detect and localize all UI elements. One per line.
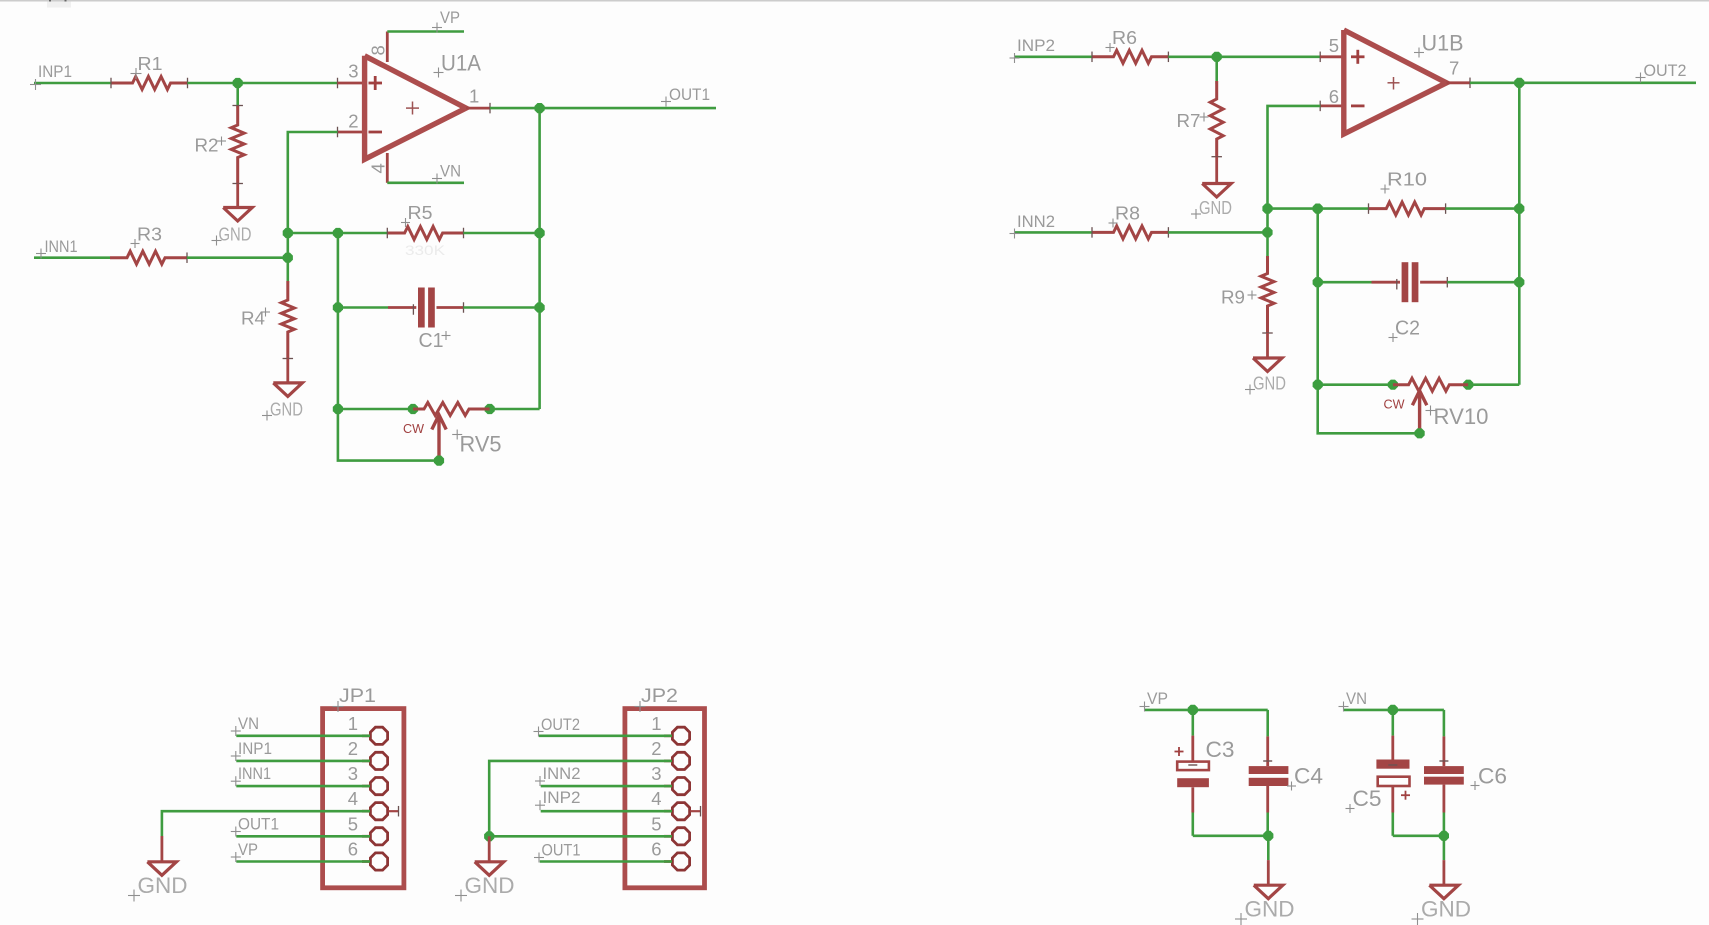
svg-text:R6: R6	[1112, 27, 1137, 48]
junction C1 right	[535, 302, 545, 312]
junction RV10 wiper	[1415, 428, 1425, 438]
svg-text:6: 6	[348, 839, 358, 860]
svg-text:330K: 330K	[405, 243, 445, 258]
JP1 pad 4	[362, 810, 370, 813]
svg-text:7: 7	[1449, 58, 1459, 79]
junction C1 left	[333, 302, 343, 312]
pin U1A.1	[466, 107, 490, 110]
pin tick R3.2	[186, 252, 188, 263]
junction node D	[1262, 227, 1272, 237]
resistor R10	[1369, 202, 1446, 215]
svg-text:2: 2	[348, 738, 358, 759]
net VN wire (caps)	[1344, 709, 1444, 712]
JP1 pad 6	[362, 860, 370, 863]
pin tick R6.2	[1167, 52, 1169, 63]
pin tick R10.2	[1445, 203, 1447, 214]
capacitor C6 leads	[1443, 710, 1446, 737]
C3 polarity plus	[1175, 751, 1184, 753]
svg-text:VP: VP	[238, 840, 258, 859]
junction C4 bottom	[1263, 831, 1273, 841]
node INN2 label	[1010, 233, 1020, 235]
JP2 pad 4	[664, 810, 672, 813]
JP1 pad 2	[362, 760, 370, 763]
ground GND (JP1)	[147, 862, 176, 876]
net INP1 wire (JP1.2)	[236, 760, 370, 763]
U1A center plus	[406, 107, 419, 109]
U1A plus input mark	[369, 82, 383, 85]
svg-text:1: 1	[469, 86, 479, 107]
pin tick C1.2	[463, 302, 465, 313]
JP2 pin4 stub	[690, 810, 700, 812]
svg-text:3: 3	[348, 763, 358, 784]
svg-text:VN: VN	[1346, 689, 1367, 708]
pin tick U1A.2	[337, 127, 339, 138]
svg-text:GND: GND	[1421, 897, 1471, 922]
junction R5 right	[535, 228, 545, 238]
connector JP1 body	[323, 709, 404, 888]
net VN wire (JP1.1)	[236, 734, 370, 737]
pin tick R2.2	[232, 183, 243, 185]
svg-text:C6: C6	[1478, 764, 1507, 789]
wire RV5 row left	[338, 408, 413, 411]
node INP1 label (JP1)	[231, 755, 241, 757]
svg-text:OUT1: OUT1	[238, 815, 279, 834]
svg-text:VP: VP	[440, 8, 460, 27]
node VN label (caps)	[1339, 706, 1349, 708]
wire C4 to GND	[1267, 836, 1270, 860]
svg-text:INN1: INN1	[238, 764, 271, 783]
label R5	[401, 222, 410, 224]
U1B plus input mark	[1351, 55, 1365, 58]
svg-text:C3: C3	[1206, 737, 1235, 762]
svg-text:CW: CW	[403, 422, 424, 436]
ground GND (C6)	[1429, 885, 1458, 899]
net VP wire (caps)	[1145, 709, 1268, 712]
JP2 pad 6	[664, 860, 672, 863]
junction OUT2	[1514, 78, 1524, 88]
svg-text:JP2: JP2	[641, 686, 678, 707]
ground GND (C4)	[1254, 885, 1283, 899]
net OUT1 wire (JP2.6)	[540, 860, 672, 863]
svg-text:1: 1	[348, 713, 358, 734]
label C6	[1471, 785, 1480, 787]
U1B minus input mark	[1351, 105, 1365, 108]
svg-text:OUT1: OUT1	[669, 85, 710, 104]
resistor R3	[110, 251, 187, 264]
wire R10 to rail	[1446, 207, 1520, 210]
svg-text:GND: GND	[138, 873, 188, 898]
svg-text:GND: GND	[465, 873, 515, 898]
svg-text:INN2: INN2	[1017, 212, 1055, 231]
junction VN	[1388, 705, 1398, 715]
svg-text:INN1: INN1	[45, 237, 78, 256]
svg-text:R8: R8	[1115, 203, 1140, 224]
svg-text:VP: VP	[1147, 689, 1168, 708]
junction R10 left	[1262, 204, 1272, 214]
svg-text:GND: GND	[270, 399, 303, 420]
svg-text:U1A: U1A	[441, 51, 481, 76]
capacitor C3	[1177, 762, 1209, 771]
wire R9 to GND	[1266, 333, 1269, 359]
op-amp U1B triangle	[1344, 30, 1447, 134]
JP1 pad 5	[362, 835, 370, 838]
svg-text:6: 6	[1329, 86, 1339, 107]
pin tick R1.1	[110, 78, 112, 89]
RV5 wiper arrow	[437, 418, 440, 459]
net INN1 wire (JP1.3)	[236, 785, 370, 788]
svg-text:3: 3	[651, 763, 661, 784]
ground GND (JP2)	[475, 862, 504, 876]
node OUT2 label	[1636, 77, 1646, 79]
wire output rail	[538, 108, 541, 409]
net INP2 wire (JP2.4)	[541, 810, 672, 813]
junction C2 left	[1313, 277, 1323, 287]
ground GND (R4)	[273, 383, 302, 397]
net INN2 wire (JP2.3)	[541, 785, 672, 788]
net OUT2 wire	[1470, 82, 1696, 85]
wire C3 bottom	[1193, 834, 1269, 837]
svg-text:INP2: INP2	[543, 788, 581, 807]
pin tick U1A.3	[337, 78, 339, 89]
net INN1 wire	[34, 256, 110, 259]
wire node D down	[1266, 209, 1269, 258]
U1A minus input mark	[369, 131, 383, 134]
junction R10 mid	[1313, 204, 1323, 214]
wire RV10 wiper loop	[1318, 385, 1420, 434]
junction C2 right	[1514, 277, 1524, 287]
pin tick R5.1	[386, 228, 388, 239]
C5 polarity plus	[1401, 794, 1410, 796]
svg-text:U1B: U1B	[1422, 31, 1464, 56]
wire VP stub	[387, 30, 464, 33]
svg-text:GND: GND	[1245, 897, 1295, 922]
wire C1 row left	[338, 306, 388, 309]
label R6	[1106, 47, 1115, 49]
svg-text:CW: CW	[1384, 398, 1405, 412]
node OUT1 label (JP2)	[534, 857, 544, 859]
junction RV10 row left	[1313, 380, 1323, 390]
capacitor C2	[1372, 281, 1401, 284]
pin tick C2.1	[1396, 279, 1398, 290]
svg-text:GND: GND	[1253, 373, 1286, 394]
svg-text:R1: R1	[138, 53, 163, 74]
svg-text:5: 5	[651, 813, 661, 834]
pin tick R1.2	[187, 78, 189, 89]
svg-text:1: 1	[651, 713, 661, 734]
wire RV5 right	[490, 408, 540, 411]
svg-text:2: 2	[348, 111, 358, 132]
JP1 pad 1	[362, 734, 370, 737]
junction RV10.3	[1463, 380, 1473, 390]
svg-text:RV5: RV5	[460, 432, 502, 457]
label U1A	[434, 72, 444, 74]
pin tick C6.1	[1439, 760, 1448, 762]
svg-text:R10: R10	[1387, 169, 1427, 190]
junction JP2 GND	[484, 831, 494, 841]
resistor R4	[281, 281, 294, 359]
wire JP2 GND stem	[488, 836, 491, 862]
net GND wire (JP1.4)	[162, 811, 370, 836]
net OUT1 wire (JP1.5)	[236, 835, 370, 838]
wire R5 to rail	[464, 232, 540, 235]
pin tick R6.1	[1091, 52, 1093, 63]
net OUT2 wire (JP2.1)	[539, 734, 672, 737]
wire R1 to node A	[188, 82, 338, 85]
junction RV5 row left	[333, 404, 343, 414]
pin tick C2.2	[1446, 277, 1448, 288]
svg-text:OUT2: OUT2	[1644, 61, 1687, 80]
junction VP	[1188, 705, 1198, 715]
junction RV5.3	[485, 404, 495, 414]
RV10 wiper arrow	[1418, 394, 1421, 432]
ground GND (R2)	[223, 208, 252, 222]
node INP2 label	[1010, 57, 1020, 59]
resistor R6	[1092, 50, 1168, 63]
node VP label (caps)	[1140, 706, 1150, 708]
junction node A	[233, 78, 243, 88]
pin tick U1A.1	[489, 103, 491, 114]
node OUT1 label (JP1)	[231, 831, 241, 833]
wire R6 to node C	[1168, 55, 1320, 58]
potentiometer RV10	[1393, 378, 1468, 391]
wire R7 to GND	[1215, 157, 1218, 184]
wire C6 to GND	[1443, 836, 1446, 860]
svg-text:VN: VN	[238, 714, 259, 733]
label JP1	[333, 706, 344, 708]
pin U1B.5	[1320, 55, 1344, 58]
capacitor C4	[1249, 766, 1289, 774]
svg-text:R7: R7	[1177, 110, 1201, 131]
node OUT2 label (JP2)	[534, 731, 544, 733]
svg-text:INP1: INP1	[38, 62, 72, 81]
connector JP2 body	[625, 709, 705, 888]
pin tick R10.1	[1368, 203, 1370, 214]
pin U1B.6	[1320, 105, 1344, 108]
label R8	[1109, 222, 1118, 224]
svg-text:6: 6	[651, 839, 661, 860]
node INN1 label (JP1)	[231, 780, 241, 782]
svg-text:4: 4	[348, 788, 358, 809]
JP2 pad 3	[664, 785, 672, 788]
wire node B down	[286, 233, 289, 283]
label RV5	[452, 434, 462, 436]
svg-text:R2: R2	[195, 135, 219, 156]
wire RV5 wiper loop	[338, 409, 439, 461]
svg-text:OUT1: OUT1	[542, 841, 581, 860]
pin U1B.7	[1447, 81, 1471, 84]
pin tick R8.2	[1167, 227, 1169, 238]
net INP2 wire	[1014, 55, 1092, 58]
node OUT1 label	[661, 101, 671, 103]
junction RV5.1	[408, 404, 418, 414]
svg-text:R5: R5	[408, 202, 433, 223]
wire pin6 left-down	[1268, 106, 1321, 209]
pin tick R9.2	[1262, 332, 1273, 334]
junction OUT1	[535, 103, 545, 113]
pin U1A.3	[338, 82, 365, 85]
svg-text:RV10: RV10	[1434, 404, 1489, 429]
wire mid rail 2	[1316, 209, 1319, 385]
resistor R8	[1092, 226, 1168, 239]
net INN2 wire	[1014, 231, 1092, 234]
wire mid rail	[337, 233, 340, 409]
svg-text:8: 8	[368, 45, 389, 55]
svg-text:C2: C2	[1395, 318, 1420, 340]
junction R10 right	[1514, 204, 1524, 214]
wire R5 row left	[288, 232, 388, 235]
wire R3 to node B	[187, 256, 288, 259]
label R3	[131, 243, 140, 245]
pin tick C5.1	[1388, 764, 1397, 766]
pin tick R2.1	[232, 105, 243, 107]
pin tick R5.2	[463, 228, 465, 239]
resistor R2	[236, 83, 239, 108]
net INP1 wire	[34, 82, 111, 85]
wire RV10 row left	[1318, 383, 1393, 386]
capacitor C3 leads	[1192, 710, 1195, 736]
wire C2 row left	[1318, 281, 1372, 284]
resistor R9	[1261, 256, 1274, 333]
pin tick U1B.7	[1469, 78, 1471, 89]
junction R5 mid	[333, 228, 343, 238]
svg-text:C4: C4	[1294, 764, 1323, 789]
pin tick U1B.6	[1319, 101, 1321, 112]
capacitor C5	[1376, 760, 1409, 769]
node VP label	[432, 27, 442, 29]
junction R5 left	[283, 228, 293, 238]
svg-text:C1: C1	[419, 330, 444, 352]
label U1B	[1414, 52, 1424, 54]
wire R4 to GND	[286, 359, 289, 384]
net OUT1 wire	[490, 107, 716, 110]
pin number 4	[368, 163, 389, 173]
junction node B	[283, 253, 293, 263]
pin tick C3.1	[1188, 764, 1197, 766]
wire output rail 2	[1518, 83, 1521, 385]
resistor R7	[1215, 57, 1218, 84]
svg-text:INP1: INP1	[238, 739, 272, 758]
svg-text:JP1: JP1	[339, 686, 376, 707]
svg-text:R9: R9	[1221, 287, 1245, 308]
node INN2 label (JP2)	[535, 780, 545, 782]
svg-text:INN2: INN2	[543, 764, 581, 783]
resistor R1	[111, 77, 188, 90]
pin U1A.4	[386, 153, 389, 183]
wire JP1 GND stem	[160, 836, 163, 862]
svg-text:C5: C5	[1353, 786, 1382, 811]
node VP label (JP1)	[231, 856, 241, 858]
svg-text:INP2: INP2	[1017, 36, 1055, 55]
pin number 8	[368, 45, 389, 55]
label JP2	[635, 706, 646, 708]
junction node C	[1212, 52, 1222, 62]
capacitor C6	[1424, 766, 1464, 774]
svg-text:5: 5	[348, 813, 358, 834]
pin U1A.2	[338, 131, 365, 134]
label R10	[1381, 188, 1390, 190]
pin tick R8.1	[1091, 227, 1093, 238]
wire C5 bottom	[1393, 834, 1444, 837]
capacitor C5 leads	[1392, 710, 1395, 736]
svg-text:2: 2	[651, 738, 661, 759]
ground GND (R9)	[1253, 358, 1282, 372]
capacitor C4 leads	[1266, 710, 1269, 737]
capacitor C1	[388, 306, 416, 309]
node INP2 label (JP2)	[535, 804, 545, 806]
pin tick R7.2	[1211, 156, 1222, 158]
label R1	[131, 73, 142, 75]
net VP wire (JP1.6)	[236, 860, 370, 863]
node INP1 label	[30, 84, 41, 86]
junction RV5 wiper	[434, 456, 444, 466]
svg-text:4: 4	[368, 163, 389, 173]
wire C1 to rail	[464, 306, 540, 309]
svg-text:4: 4	[651, 788, 661, 809]
svg-text:GND: GND	[1199, 197, 1232, 218]
top frame edge	[0, 0, 1709, 2]
junction C6 bottom	[1439, 831, 1449, 841]
potentiometer RV5	[413, 403, 490, 416]
wire VN stub	[387, 182, 464, 185]
node VN label (JP1)	[231, 730, 241, 732]
svg-text:R4: R4	[241, 308, 265, 329]
JP2 pad 2	[664, 760, 672, 763]
ground GND (R7)	[1202, 184, 1231, 198]
wire RV10 right	[1468, 383, 1519, 386]
pin tick R4.2	[283, 358, 294, 360]
wire pin2 to feedback	[288, 132, 338, 233]
JP2 pad 5	[664, 835, 672, 838]
net GND wire (JP2.2)	[489, 761, 672, 836]
U1B center plus	[1388, 82, 1400, 84]
JP1 pad 3	[362, 785, 370, 788]
svg-text:GND: GND	[219, 224, 252, 245]
wire R10 row left	[1268, 207, 1369, 210]
label RV10	[1426, 410, 1436, 412]
pin tick C1.1	[412, 304, 414, 315]
pin tick C4.1	[1263, 760, 1272, 762]
svg-text:R3: R3	[137, 224, 162, 245]
svg-text:VN: VN	[440, 162, 461, 181]
JP2 pad 1	[664, 734, 672, 737]
resistor R5	[387, 227, 463, 240]
node VN label	[432, 178, 442, 180]
wire R2 to GND	[236, 184, 239, 209]
svg-text:5: 5	[1329, 35, 1339, 56]
junction RV10.1	[1388, 380, 1398, 390]
op-amp U1A triangle	[365, 56, 466, 160]
svg-text:3: 3	[348, 61, 358, 82]
wire C2 to rail	[1447, 281, 1519, 284]
pin tick U1B.5	[1319, 52, 1321, 63]
pin U1A.8	[386, 32, 389, 63]
node INN1 label	[36, 253, 46, 255]
wire R8 to node D	[1168, 231, 1267, 234]
JP1 pin4 stub	[388, 810, 398, 812]
label C4	[1287, 785, 1296, 787]
svg-text:OUT2: OUT2	[541, 715, 580, 734]
